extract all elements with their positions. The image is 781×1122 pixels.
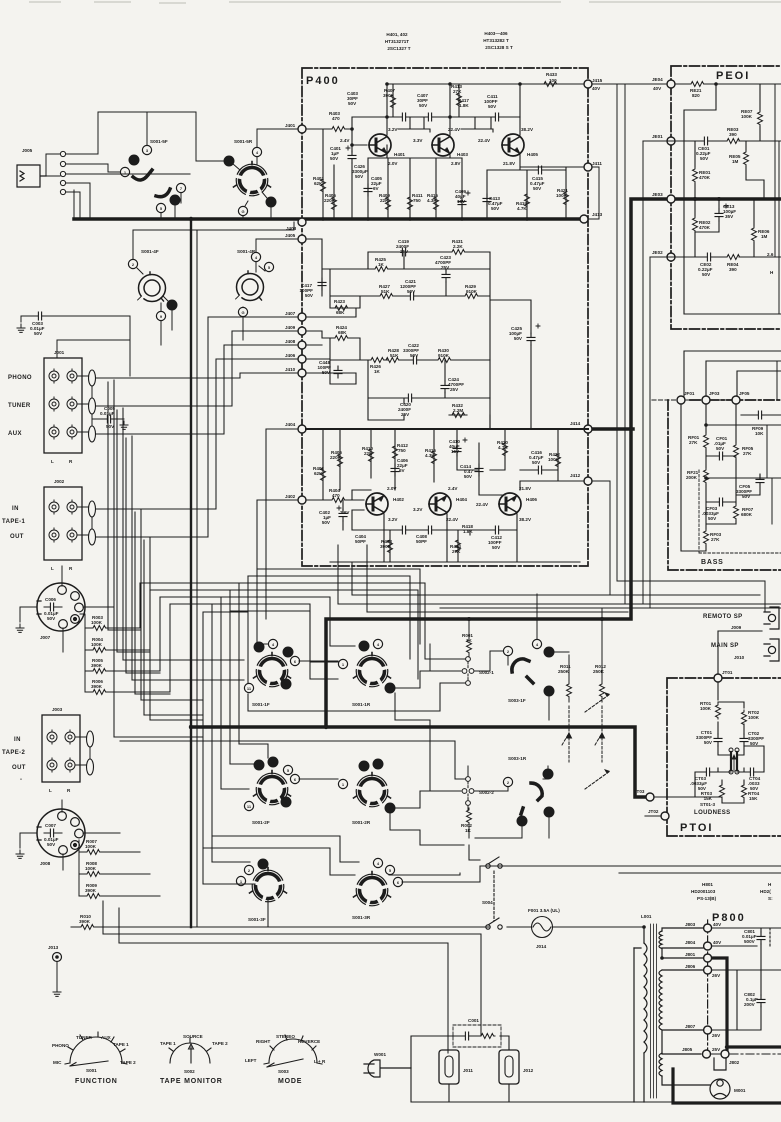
svg-text:H405: H405 [527, 152, 538, 157]
svg-text:25V: 25V [712, 1047, 721, 1052]
power plug W001 [364, 1060, 411, 1077]
capacitor C409 [458, 197, 466, 209]
resistor R402 [321, 466, 326, 482]
resistor R413 [457, 91, 462, 107]
input J401 chain [306, 129, 462, 219]
svg-text:IN: IN [14, 737, 21, 743]
svg-text:1.8K: 1.8K [463, 529, 473, 534]
svg-text:26V: 26V [712, 973, 721, 978]
capacitor C422 [409, 356, 421, 364]
capacitor CE13 [715, 209, 723, 221]
loudness switch ST01 [729, 748, 739, 774]
svg-text:250K: 250K [593, 669, 605, 674]
capacitor C416 [534, 466, 546, 474]
svg-text:3.2V: 3.2V [388, 127, 398, 132]
thick bus B1 main preamp ground [74, 217, 584, 221]
svg-text:J412: J412 [570, 473, 581, 478]
svg-text:40V: 40V [713, 940, 722, 945]
svg-text:S002-1: S002-1 [479, 670, 494, 675]
svg-text:JF05: JF05 [739, 391, 750, 396]
svg-text:51K: 51K [390, 353, 399, 358]
svg-text:50V: 50V [704, 740, 713, 745]
resistor RE02 [693, 216, 698, 232]
svg-text:S004: S004 [482, 900, 493, 905]
P400 left edge connectors [285, 123, 306, 504]
PE01 wires [643, 84, 781, 314]
svg-text:16V: 16V [451, 449, 460, 454]
transistor H403 [432, 134, 454, 156]
capacitor CE01 [700, 137, 712, 145]
svg-text:S:: S: [768, 896, 773, 901]
svg-text:4.3K: 4.3K [425, 453, 435, 458]
PT01 wires [645, 631, 764, 816]
resistor RF05 [734, 443, 739, 459]
svg-text:200K: 200K [686, 475, 698, 480]
J001 jacks [49, 369, 96, 442]
resistor R410 [369, 447, 374, 463]
svg-text:35V: 35V [725, 214, 734, 219]
svg-text:J405: J405 [285, 233, 296, 238]
tone network channel A wires [306, 239, 531, 429]
resistors R007-R010 [71, 840, 191, 927]
svg-text:S001-1F: S001-1F [252, 702, 270, 707]
svg-text:J011: J011 [463, 1068, 473, 1073]
svg-text:2.8V: 2.8V [451, 161, 461, 166]
speaker jack remote [764, 607, 779, 629]
svg-text:JF01: JF01 [684, 391, 695, 396]
resistor RF21 [704, 468, 709, 484]
capacitor C412 [491, 526, 503, 534]
capacitor C406 [391, 464, 399, 476]
resistor R420 [503, 441, 508, 457]
svg-text:S001-4F: S001-4F [141, 249, 159, 254]
resistor R431 [450, 250, 466, 255]
resistor R407 [391, 93, 396, 109]
svg-text:J414: J414 [570, 421, 581, 426]
resistor RT01 [716, 703, 721, 719]
resistor R406 [338, 452, 343, 468]
capacitor C003 [21, 316, 130, 376]
svg-text:910K: 910K [466, 289, 478, 294]
svg-text:TUNER: TUNER [8, 403, 31, 409]
capacitor CF03 [715, 498, 727, 506]
svg-text:4.3K: 4.3K [427, 198, 437, 203]
J001 connector box [44, 358, 82, 453]
svg-text:AUX: AUX [8, 431, 22, 437]
resistor RE01 [693, 167, 698, 183]
svg-text:750: 750 [413, 198, 421, 203]
svg-text:S001-3R: S001-3R [352, 915, 371, 920]
svg-text:390K: 390K [380, 544, 392, 549]
svg-text:50V: 50V [410, 353, 419, 358]
svg-text:AUX: AUX [101, 1035, 112, 1040]
capacitor C424 [441, 381, 449, 393]
svg-text:TAPE MONITOR: TAPE MONITOR [160, 1078, 223, 1085]
svg-text:50V: 50V [322, 370, 331, 375]
resistor RE04 [725, 255, 741, 260]
svg-text:HD2(: HD2( [760, 889, 771, 894]
svg-text:6V: 6V [373, 186, 380, 191]
svg-text:J404: J404 [285, 422, 296, 427]
power thick bus [673, 958, 781, 1103]
svg-text:50V: 50V [532, 460, 541, 465]
capacitor C408 [424, 526, 436, 534]
J002 connector box [44, 487, 82, 560]
resistor R415 [434, 195, 439, 211]
svg-text:TAPE-2: TAPE-2 [2, 750, 26, 756]
svg-text:JT01: JT01 [722, 670, 733, 675]
svg-text:L: L [49, 788, 52, 793]
svg-text:H801: H801 [702, 882, 713, 887]
svg-text:50V: 50V [419, 103, 428, 108]
transistor H406 [499, 493, 521, 515]
resistor R426 [369, 358, 385, 363]
svg-text:S001-3F: S001-3F [248, 917, 266, 922]
svg-text:REMOTO SP: REMOTO SP [703, 614, 743, 620]
svg-text:680K: 680K [741, 512, 753, 517]
resistor RT03 [720, 783, 725, 799]
resistor R429 [463, 294, 479, 299]
svg-text:HT313271T: HT313271T [385, 39, 409, 44]
svg-text:100K: 100K [748, 715, 760, 720]
svg-text:1K: 1K [378, 262, 385, 267]
capacitor C802 [757, 995, 765, 1007]
MODE dial [264, 1035, 322, 1067]
svg-text:390: 390 [729, 267, 737, 272]
capacitor C404 [398, 526, 410, 534]
svg-text:1K: 1K [465, 828, 472, 833]
svg-text:R433: R433 [546, 72, 557, 77]
svg-text:J003: J003 [52, 707, 63, 712]
capacitor C402 [339, 509, 347, 521]
resistor R409 [386, 195, 391, 211]
svg-text:4.7K: 4.7K [498, 445, 508, 450]
svg-text:J806: J806 [685, 964, 696, 969]
svg-text:L: L [51, 459, 54, 464]
svg-text:100K: 100K [91, 620, 103, 625]
svg-text:L: L [51, 566, 54, 571]
svg-text:390K: 390K [85, 888, 97, 893]
svg-text:470: 470 [332, 116, 340, 121]
svg-text:1K: 1K [374, 369, 381, 374]
svg-text:68K: 68K [338, 330, 347, 335]
svg-text:15K: 15K [704, 796, 713, 801]
capacitor C005 [92, 419, 124, 426]
svg-text:390K: 390K [79, 919, 91, 924]
svg-text:HT313282 T: HT313282 T [483, 38, 509, 43]
svg-text:ST01-3: ST01-3 [700, 802, 716, 807]
svg-text:390K: 390K [383, 93, 395, 98]
svg-text:PEOI: PEOI [716, 70, 750, 82]
tone network channel B wires [306, 331, 490, 429]
svg-text:51K: 51K [381, 289, 390, 294]
svg-text:21.8V: 21.8V [503, 161, 516, 166]
svg-text:21.8V: 21.8V [519, 486, 532, 491]
svg-text:22K: 22K [364, 451, 373, 456]
svg-text:S003: S003 [278, 1069, 289, 1074]
svg-text:LOUDNESS: LOUDNESS [694, 810, 731, 816]
svg-text:2.6: 2.6 [767, 252, 774, 257]
thick bus right JE03 net [191, 199, 781, 797]
svg-text:40V: 40V [653, 86, 662, 91]
FUNCTION dial [65, 1032, 127, 1066]
svg-text:H403—406: H403—406 [484, 31, 508, 36]
resistor R433 [542, 82, 558, 87]
svg-text:J807: J807 [685, 1024, 696, 1029]
svg-text:50V: 50V [488, 104, 497, 109]
voltage selector J011 [439, 1050, 459, 1084]
capacitor CE02 [703, 253, 715, 261]
right edge stubs [767, 84, 779, 524]
svg-text:S003-1R: S003-1R [508, 756, 527, 761]
svg-text:STEREO: STEREO [276, 1034, 295, 1039]
resistor RF01 [704, 433, 709, 449]
resistor R432 [450, 413, 466, 418]
svg-text:16V: 16V [457, 199, 466, 204]
svg-text:1K: 1K [466, 638, 473, 643]
J005 contacts [46, 151, 108, 219]
J003 jacks [47, 730, 94, 775]
svg-text:S001-1R: S001-1R [352, 702, 371, 707]
svg-text:PS-13(B): PS-13(B) [697, 896, 717, 901]
svg-text:G: G [520, 819, 523, 824]
J013 terminal [53, 953, 62, 962]
svg-text:J406: J406 [285, 353, 296, 358]
transistor H401 [369, 134, 391, 156]
svg-text:OUT: OUT [12, 765, 26, 771]
svg-text:J010: J010 [734, 655, 745, 660]
svg-text:S001-5R: S001-5R [234, 139, 253, 144]
capacitor C403 [398, 113, 410, 121]
main thick vertical bus [190, 219, 192, 927]
svg-text:2.6V: 2.6V [340, 510, 350, 515]
svg-text:TAPE 2: TAPE 2 [212, 1041, 228, 1046]
svg-text:3.2V: 3.2V [413, 507, 423, 512]
svg-text:LEFT: LEFT [245, 1058, 257, 1063]
svg-text:220K: 220K [330, 455, 342, 460]
svg-text:2.2M: 2.2M [453, 408, 463, 413]
JF connectors [652, 391, 750, 404]
capacitor CT01 [714, 734, 722, 746]
capacitor C407 [424, 113, 436, 121]
svg-text:2.4V: 2.4V [448, 486, 458, 491]
svg-text:50V: 50V [330, 156, 339, 161]
capacitor CT02 [740, 734, 748, 746]
svg-text:J413: J413 [592, 212, 603, 217]
svg-text:S001-2R: S001-2R [352, 820, 371, 825]
svg-text:25V: 25V [400, 249, 409, 254]
svg-text:3.3V: 3.3V [413, 138, 423, 143]
top transistor type labels [385, 31, 513, 51]
transistor H405 [502, 134, 524, 156]
svg-text:50PF: 50PF [416, 539, 427, 544]
svg-text:2.0V: 2.0V [387, 486, 397, 491]
resistor RE05 [744, 150, 749, 166]
resistor R416 [432, 449, 437, 465]
resistor R428 [384, 358, 400, 363]
resistor R411 [408, 195, 413, 211]
svg-text:F001 3.5A (UL): F001 3.5A (UL) [528, 908, 560, 913]
svg-text:JT03: JT03 [634, 789, 645, 794]
svg-text:OUT: OUT [10, 534, 24, 540]
svg-text:50V: 50V [34, 331, 43, 336]
svg-text:-: - [20, 777, 22, 783]
svg-text:50V: 50V [47, 616, 56, 621]
svg-text:27K: 27K [711, 537, 720, 542]
capacitor C425 [527, 333, 535, 345]
svg-text:50V: 50V [702, 272, 711, 277]
svg-text:J802: J802 [729, 1060, 740, 1065]
svg-text:J415: J415 [592, 78, 603, 83]
svg-text:MAIN SP: MAIN SP [711, 643, 739, 649]
faint top scan edge [30, 2, 781, 3]
capacitor C413 [483, 194, 491, 206]
svg-text:50V: 50V [322, 520, 331, 525]
svg-text:1M: 1M [732, 159, 739, 164]
svg-text:C001: C001 [468, 1018, 479, 1023]
capacitor C415 [534, 166, 546, 174]
svg-text:J803: J803 [685, 922, 696, 927]
svg-text:40V: 40V [713, 922, 722, 927]
svg-text:100K: 100K [91, 642, 103, 647]
tap connectors J80x [682, 920, 740, 1065]
svg-text:25V: 25V [441, 265, 450, 270]
resistor R414 [456, 538, 461, 554]
capacitor C419 [398, 248, 410, 256]
svg-text:TAPE-1: TAPE-1 [2, 519, 26, 525]
resistor R404 [330, 498, 346, 503]
TAPE MONITOR dial [169, 1038, 211, 1063]
svg-text:25V: 25V [450, 387, 459, 392]
svg-text:S001-5F: S001-5F [150, 139, 168, 144]
svg-text:26V: 26V [712, 1033, 721, 1038]
bass-filter block border [668, 400, 781, 570]
svg-text:250K: 250K [558, 669, 570, 674]
svg-text:50V: 50V [47, 842, 56, 847]
resistor RE03 [725, 139, 741, 144]
DIN connector J008 [20, 800, 120, 870]
svg-text:H401: H401 [394, 152, 405, 157]
PE01 block border [671, 66, 781, 329]
svg-text:50V: 50V [491, 206, 500, 211]
svg-text:J401: J401 [285, 123, 296, 128]
capacitor RF09 area [754, 411, 766, 419]
transistor H402 [366, 493, 388, 515]
extra mesh wires [108, 382, 480, 884]
resistor R403 [330, 127, 346, 132]
speaker jack main [764, 639, 779, 661]
svg-text:H402: H402 [393, 497, 404, 502]
power rails right [711, 928, 781, 1054]
capacitor C448 [334, 366, 342, 378]
capacitor CF05 [756, 475, 764, 487]
svg-text:2SC1327 T: 2SC1327 T [387, 46, 410, 51]
svg-text:50V: 50V [305, 293, 314, 298]
resistor RF07 [734, 504, 739, 520]
svg-text:2.0V: 2.0V [388, 161, 398, 166]
resistor R422 [556, 452, 561, 468]
svg-text:50V: 50V [464, 474, 473, 479]
svg-text:50V: 50V [708, 516, 717, 521]
svg-text:500V: 500V [744, 939, 756, 944]
capacitor C410 [453, 444, 461, 456]
svg-text:L + R: L + R [314, 1059, 326, 1064]
svg-text:L001: L001 [641, 914, 652, 919]
svg-text:JE01: JE01 [652, 134, 663, 139]
ground for C003 [17, 324, 25, 332]
resistor RT02 [742, 710, 747, 726]
svg-text:27K: 27K [689, 440, 698, 445]
J002 jacks [49, 500, 96, 545]
svg-text:TAPE 2: TAPE 2 [120, 1060, 136, 1065]
svg-text:100K: 100K [700, 706, 712, 711]
svg-text:IN: IN [12, 506, 19, 512]
svg-text:H403: H403 [457, 152, 468, 157]
long vertical wires right-middle [440, 84, 781, 611]
svg-text:470K: 470K [699, 225, 711, 230]
svg-text:C007: C007 [45, 823, 56, 828]
svg-text:JF03: JF03 [709, 391, 720, 396]
svg-text:BASS: BASS [701, 559, 724, 566]
svg-text:50V: 50V [533, 186, 542, 191]
top channel supply rail [352, 84, 584, 135]
svg-text:27K: 27K [453, 89, 462, 94]
svg-text:J407: J407 [285, 311, 296, 316]
interstage wires top channel [387, 117, 584, 219]
svg-text:50PF: 50PF [355, 539, 366, 544]
resistor RF03 [704, 529, 709, 545]
resistor R424 [333, 336, 349, 341]
resistor RE07 [758, 110, 763, 126]
fuse F001 [532, 917, 553, 938]
svg-text:38.2V: 38.2V [521, 127, 534, 132]
resistor R427 [378, 294, 394, 299]
svg-text:22K: 22K [380, 198, 389, 203]
svg-text:SOURCE: SOURCE [183, 1034, 203, 1039]
svg-text:S001-2F: S001-2F [252, 820, 270, 825]
svg-text:H406: H406 [526, 497, 537, 502]
svg-text:S001: S001 [86, 1068, 97, 1073]
BASS label [699, 470, 781, 553]
polarity plus marks [337, 146, 728, 510]
svg-text:22.4V: 22.4V [446, 517, 459, 522]
svg-text:R423: R423 [334, 299, 345, 304]
svg-text:HD2001103: HD2001103 [691, 889, 716, 894]
svg-text:J012: J012 [523, 1068, 534, 1073]
svg-text:M001: M001 [734, 1088, 746, 1093]
voltage selector J012 [499, 1050, 519, 1084]
svg-text:TAPE 1: TAPE 1 [160, 1041, 176, 1046]
svg-text:50V: 50V [514, 336, 523, 341]
svg-text:38.2V: 38.2V [519, 517, 532, 522]
svg-text:100K: 100K [556, 193, 568, 198]
svg-text:J008: J008 [40, 861, 51, 866]
resistor R421 [564, 190, 569, 206]
svg-text:220K: 220K [324, 198, 336, 203]
svg-text:J805: J805 [682, 1047, 693, 1052]
svg-text:PHONO: PHONO [8, 375, 32, 381]
svg-text:390K: 390K [91, 684, 103, 689]
svg-text:J804: J804 [685, 940, 696, 945]
svg-text:C006: C006 [45, 597, 56, 602]
resistor R425 [373, 267, 389, 272]
svg-text:40V: 40V [592, 86, 601, 91]
svg-text:RIGHT: RIGHT [256, 1039, 270, 1044]
svg-text:200V: 200V [744, 1002, 756, 1007]
svg-text:10K: 10K [755, 431, 764, 436]
svg-text:S002: S002 [184, 1069, 195, 1074]
J003 connector box [42, 715, 80, 782]
